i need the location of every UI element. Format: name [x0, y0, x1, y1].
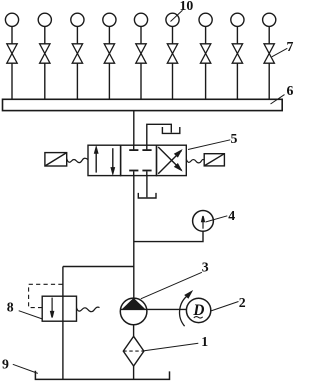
svg-text:2: 2	[239, 295, 246, 310]
filter 1	[123, 336, 144, 366]
shut-off valve 7 unit 7	[200, 44, 210, 63]
wire pump to filter	[133, 325, 135, 337]
wire unit 2 upper stem	[44, 27, 46, 44]
wire unit 7 lower stem	[205, 63, 207, 99]
leader line label 4	[206, 216, 228, 222]
nozzle 10 unit 6 circle	[166, 13, 179, 26]
wire pump shaft to motor	[120, 308, 186, 310]
leader line label 6	[271, 95, 285, 104]
leader line label 5	[188, 140, 230, 150]
nozzle 10 unit 2 circle	[38, 13, 51, 26]
pump 3	[120, 298, 147, 325]
wire relief branch horizontal	[63, 266, 134, 268]
nozzle 10 unit 4 circle	[103, 13, 116, 26]
wire gauge branch	[134, 231, 203, 241]
shut-off valve 7 unit 3	[72, 44, 82, 63]
wire unit 5 upper stem	[140, 27, 142, 44]
leader line label 1	[144, 343, 198, 351]
wire relief branch vertical to tank	[62, 267, 64, 380]
nozzle 10 unit 3 circle	[71, 13, 84, 26]
pilot line dashed	[29, 284, 63, 307]
directional valve 5 body left section with parallel arrows	[88, 145, 121, 175]
nozzle 10 unit 9 circle	[263, 13, 276, 26]
shut-off valve 7 unit 6	[167, 44, 177, 63]
svg-text:6: 6	[287, 83, 294, 98]
directional valve 5 body right section crossed arrows	[157, 145, 187, 175]
wire unit 3 upper stem	[76, 27, 78, 44]
motor arc arrowhead	[185, 292, 191, 298]
wire lower drain line	[146, 176, 148, 198]
leader line label 10	[171, 10, 183, 21]
svg-text:3: 3	[202, 260, 209, 275]
wire unit 4 lower stem	[108, 63, 110, 99]
wire main pressure line valve to pump	[133, 176, 135, 299]
svg-text:4: 4	[228, 208, 235, 223]
wire unit 8 upper stem	[236, 27, 238, 44]
tank line 9	[35, 371, 169, 380]
shut-off valve 7 unit 5	[136, 44, 146, 63]
svg-text:5: 5	[231, 131, 238, 146]
leader line label 3	[141, 272, 202, 299]
pressure gauge 4	[193, 211, 214, 232]
leader line label 9	[13, 364, 38, 373]
shut-off valve 7 unit 8	[232, 44, 242, 63]
tank cup lower drain	[138, 193, 156, 198]
wire unit 6 lower stem	[172, 63, 174, 99]
relief valve 8	[42, 296, 76, 321]
shut-off valve 7 unit 2	[40, 44, 50, 63]
wire upper drain riser	[147, 124, 172, 145]
wire filter to tank	[133, 366, 135, 379]
svg-text:8: 8	[7, 300, 14, 315]
spring left	[67, 158, 88, 162]
nozzle 10 unit 5 circle	[134, 13, 147, 26]
wire unit 9 upper stem	[268, 27, 270, 44]
wire unit 8 lower stem	[236, 63, 238, 99]
wire unit 4 upper stem	[108, 27, 110, 44]
motor tilde	[194, 317, 203, 318]
nozzle 10 unit 8 circle	[231, 13, 244, 26]
wire unit 7 upper stem	[205, 27, 207, 44]
wire unit 3 lower stem	[76, 63, 78, 99]
wire unit 6 upper stem	[172, 27, 174, 44]
leader line label 8	[19, 311, 43, 319]
wire supply stub bar to valve	[133, 111, 135, 146]
svg-text:1: 1	[201, 334, 208, 349]
wire unit 2 lower stem	[44, 63, 46, 99]
shut-off valve 7 unit 4	[104, 44, 114, 63]
shut-off valve 7 unit 9	[264, 44, 274, 63]
shut-off valve 7 unit 1	[7, 44, 17, 63]
spring right	[186, 159, 204, 163]
tank cup upper drain	[162, 127, 179, 133]
nozzle 10 unit 7 circle	[199, 13, 212, 26]
wire unit 9 lower stem	[268, 63, 270, 99]
motor 2	[186, 298, 210, 322]
wire unit 1 upper stem	[11, 27, 13, 44]
svg-text:7: 7	[287, 39, 294, 54]
svg-text:9: 9	[2, 356, 9, 371]
solenoid box right	[204, 154, 224, 166]
leader line label 7	[272, 48, 288, 57]
leader line label 2	[211, 302, 239, 312]
directional valve 5 body centre section closed ports	[121, 145, 157, 175]
svg-text:10: 10	[180, 0, 194, 13]
nozzle 10 unit 1 circle	[5, 13, 18, 26]
spring relief valve	[77, 307, 100, 312]
manifold bar 6	[3, 99, 283, 110]
motor letter D	[192, 302, 204, 319]
wire unit 5 lower stem	[140, 63, 142, 99]
motor rotation arc	[180, 295, 189, 326]
svg-text:D: D	[192, 302, 204, 319]
solenoid box left	[45, 153, 67, 166]
wire unit 1 lower stem	[11, 63, 13, 99]
